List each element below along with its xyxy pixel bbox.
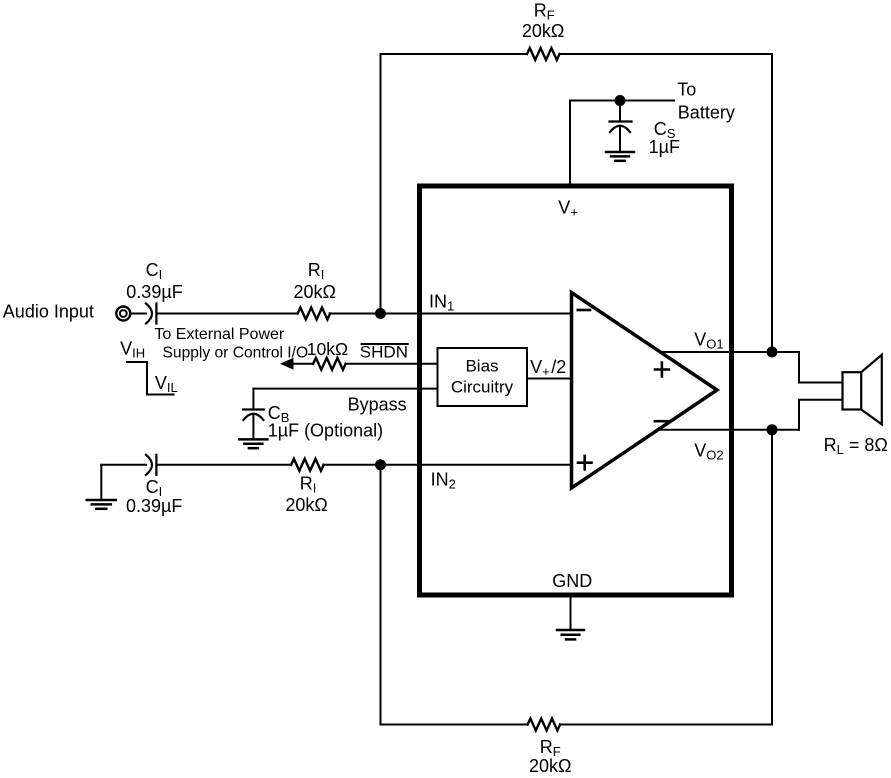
svg-text:Bypass: Bypass: [348, 394, 407, 414]
arrowhead (to external control): [280, 358, 294, 370]
op-amp inverting input minus sign: [578, 309, 590, 312]
capacitor CI (top) flat plate: [155, 304, 157, 324]
speaker RL body: [843, 372, 862, 409]
wire: bottom feedback horizontal right: [560, 724, 772, 726]
Bias Circuitry box: [438, 348, 528, 406]
svg-text:Audio Input: Audio Input: [3, 302, 94, 322]
svg-text:To: To: [677, 79, 696, 99]
svg-text:1µF (Optional): 1µF (Optional): [268, 421, 383, 441]
node: VO2 junction: [767, 424, 778, 435]
node: IN2 feedback junction: [375, 459, 386, 470]
wire: VO1 down to speaker top terminal: [799, 352, 843, 383]
svg-text:RL = 8Ω: RL = 8Ω: [824, 435, 888, 457]
svg-text:10kΩ: 10kΩ: [307, 339, 348, 359]
resistor RI (bottom): [291, 459, 323, 471]
op-amp output minus sign (VO2): [655, 420, 667, 423]
svg-text:Circuitry: Circuitry: [451, 378, 514, 397]
wire: top feedback horizontal right: [560, 53, 772, 55]
wire: bottom feedback horizontal left: [381, 724, 528, 726]
wire: V+ stub from box top to battery line: [569, 101, 571, 187]
input connector (Audio Input jack): [116, 307, 130, 321]
wire: VO2 up to speaker bottom terminal: [799, 400, 843, 430]
wire: GND stub below box: [570, 595, 572, 629]
op-amp U1 triangle: [572, 293, 718, 489]
svg-text:0.39µF: 0.39µF: [126, 282, 182, 302]
wire: CS top lead: [619, 101, 621, 121]
svg-text:1µF: 1µF: [649, 137, 680, 157]
svg-text:Bias: Bias: [465, 357, 498, 376]
ground (CS): [606, 152, 634, 161]
wire: bottom feedback right vertical up to VO2: [771, 430, 773, 725]
wire: to CI (bottom): [101, 464, 146, 466]
wire: CB top lead: [252, 389, 254, 409]
resistor RF (top): [527, 48, 560, 60]
ground (IC GND): [557, 630, 584, 639]
capacitor CB top plate: [243, 408, 264, 410]
svg-text:20kΩ: 20kΩ: [529, 756, 571, 776]
wire: arrow shaft: [291, 363, 313, 365]
resistor RI (top): [298, 308, 330, 320]
wire: CS bottom lead: [619, 127, 621, 151]
speaker RL cone: [861, 355, 882, 425]
resistor RF (bottom): [528, 719, 561, 731]
capacitor CS curved plate: [610, 126, 630, 132]
ground (lower input): [87, 500, 116, 509]
svg-text:0.39µF: 0.39µF: [126, 496, 182, 516]
op-amp output plus sign (VO1): [655, 363, 669, 377]
svg-text:20kΩ: 20kΩ: [294, 282, 336, 302]
wire: ground up to IN2 line: [100, 465, 102, 499]
capacitor CI (top) curved plate: [146, 304, 152, 324]
wire: CI to RI (top): [156, 313, 297, 315]
svg-text:Battery: Battery: [678, 102, 735, 122]
wire: VO1 output: [660, 351, 799, 353]
wire: top feedback loop left vertical (IN1 node up): [380, 54, 382, 314]
resistor 10k (SHDN): [313, 358, 345, 370]
wire: top feedback horizontal left: [381, 53, 528, 55]
wire: jack to CI: [130, 313, 146, 315]
svg-text:Supply or Control I/O: Supply or Control I/O: [163, 345, 309, 362]
wire: Bypass line from CB to Bias box: [253, 388, 437, 390]
node: VO1 junction: [767, 347, 778, 358]
wire: VO2 output: [657, 429, 799, 431]
ground (CB): [239, 439, 267, 448]
svg-text:SHDN: SHDN: [360, 343, 408, 362]
wire: bottom feedback left vertical: [380, 465, 382, 725]
logic waveform VIH/VIL: [127, 362, 174, 395]
capacitor CI (bottom) curved plate: [146, 455, 152, 475]
wire: SHDN line from resistor to Bias box: [345, 363, 437, 365]
capacitor CI (bottom) flat plate: [155, 455, 157, 475]
wire: CI to RI (bottom): [156, 464, 291, 466]
wire: RI to IN1 pin and op-amp inverting input: [330, 313, 572, 315]
capacitor CB curved plate: [243, 414, 263, 420]
wire: CB bottom lead: [252, 415, 254, 439]
svg-text:To External Power: To External Power: [154, 326, 285, 343]
wire: RI to IN2 pin and op-amp non-inverting input: [323, 464, 571, 466]
svg-text:20kΩ: 20kΩ: [285, 495, 327, 515]
wire: V+/2 from bias box to op-amp: [527, 378, 572, 380]
node: battery junction: [615, 95, 626, 106]
capacitor CS top plate: [610, 120, 632, 122]
wire: battery horizontal: [570, 100, 674, 102]
svg-text:GND: GND: [552, 571, 592, 591]
node: IN1 feedback junction: [375, 308, 386, 319]
wire: top feedback right vertical down to VO1: [771, 54, 773, 352]
svg-text:20kΩ: 20kΩ: [522, 21, 564, 41]
amplifier IC box: [420, 186, 732, 595]
op-amp non-inverting input plus sign: [578, 456, 592, 470]
overline of SHDN: [361, 343, 409, 345]
